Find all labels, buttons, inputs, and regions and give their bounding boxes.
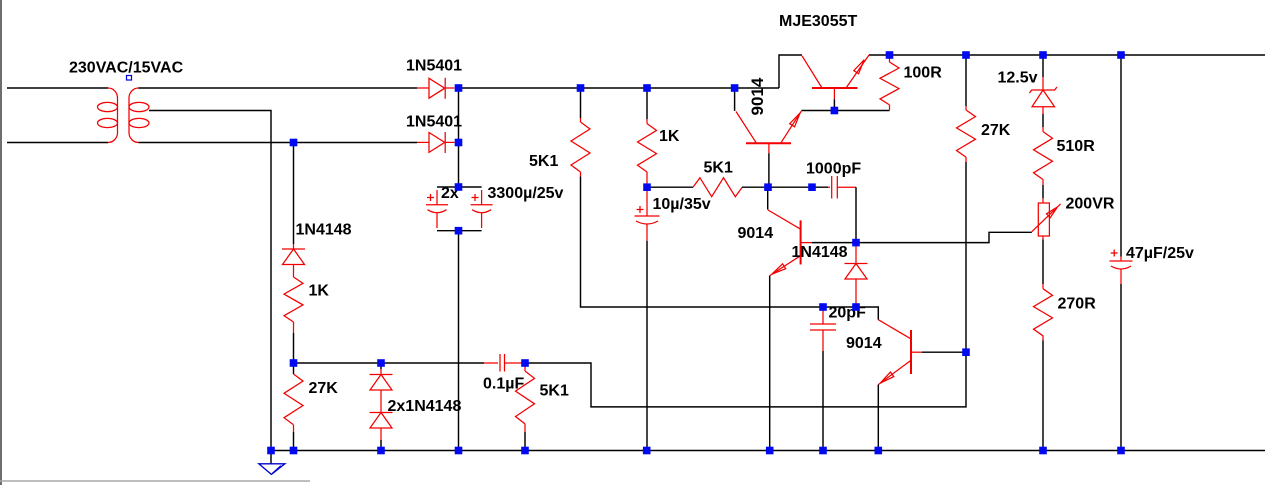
label 5K1 horizontal xyxy=(704,160,733,177)
label Q4 9014 xyxy=(846,335,882,352)
label 1K middle xyxy=(659,128,680,145)
wire 5K1 to error amp base run xyxy=(581,177,824,308)
transistor Q4 9014 xyxy=(878,320,921,385)
label MJE3055T xyxy=(779,13,857,30)
svg-text:1N5401: 1N5401 xyxy=(406,114,462,131)
label 2x1N4148 xyxy=(388,398,462,415)
window border left edge xyxy=(0,0,2,485)
resistor 27K right xyxy=(957,55,976,162)
resistor 270R xyxy=(1034,284,1053,341)
wire Q4 collector xyxy=(922,351,966,353)
svg-text:100R: 100R xyxy=(904,65,943,82)
svg-text:47µF/25v: 47µF/25v xyxy=(1126,245,1194,262)
svg-text:9014: 9014 xyxy=(846,335,882,352)
wire 1K node to 5K1h xyxy=(647,186,693,188)
svg-text:27K: 27K xyxy=(309,380,339,397)
wire 5K1h to base node xyxy=(742,186,768,188)
label 2x xyxy=(441,185,459,202)
wire secondary center tap xyxy=(149,111,271,451)
svg-text:270R: 270R xyxy=(1058,296,1097,313)
label 27K right xyxy=(981,122,1011,139)
label D2 1N5401 xyxy=(406,114,462,131)
resistor 5K1 first xyxy=(571,88,590,177)
transistor Q1 MJE3055T xyxy=(802,55,869,99)
label 230VAC/15VAC xyxy=(69,60,184,77)
svg-text:9014: 9014 xyxy=(738,225,774,242)
window border bottom-left edge xyxy=(0,480,310,482)
svg-text:5K1: 5K1 xyxy=(540,383,569,400)
wire output top rail xyxy=(869,54,1265,56)
diode D6 1N4148 xyxy=(845,246,868,304)
wire 1000pF down to diode node xyxy=(855,187,857,242)
svg-text:3300µ/25v: 3300µ/25v xyxy=(488,185,564,202)
transistor Q3 9014 xyxy=(768,210,812,276)
svg-text:1K: 1K xyxy=(659,128,680,145)
wire 20pF node xyxy=(823,306,856,308)
wire bias node horizontal xyxy=(294,362,485,364)
label 20pF xyxy=(829,305,867,322)
label D6 1N4148 xyxy=(792,244,848,261)
wire zener to 510R xyxy=(1042,114,1044,127)
svg-text:MJE3055T: MJE3055T xyxy=(779,13,857,30)
resistor 27K left xyxy=(284,363,303,451)
resistor 510R xyxy=(1034,127,1053,185)
label 47uF/25v xyxy=(1126,245,1194,262)
label D1 1N5401 xyxy=(406,58,462,75)
label 510R xyxy=(1057,138,1096,155)
diode D4 1N4148 (upper of 2x) xyxy=(370,369,393,390)
wire Q4 emitter down xyxy=(877,385,879,451)
capacitor 20pF xyxy=(810,307,836,351)
svg-text:5K1: 5K1 xyxy=(529,153,558,170)
svg-text:1000pF: 1000pF xyxy=(806,161,861,178)
wire pot to 270R xyxy=(1042,239,1044,284)
resistor 5K1 horizontal xyxy=(693,178,742,197)
svg-text:1N4148: 1N4148 xyxy=(792,244,848,261)
label 3300u/25v xyxy=(488,185,564,202)
wire Q1 base lead xyxy=(833,99,835,110)
ground symbol xyxy=(259,464,285,475)
wire 20pF to ground rail xyxy=(822,351,824,451)
resistor 100R xyxy=(880,55,899,111)
resistor 1K middle xyxy=(638,88,657,187)
resistor 5K1 bottom xyxy=(516,363,535,451)
label D3 1N4148 xyxy=(296,222,352,239)
wire Q3 collector stub xyxy=(767,187,769,210)
wire zener top lead xyxy=(1042,55,1044,77)
wire secondary bottom lead xyxy=(139,142,418,144)
svg-text:2x1N4148: 2x1N4148 xyxy=(388,398,462,415)
wire primary bottom lead xyxy=(7,142,108,144)
wire Q1 base node horizontal xyxy=(802,110,890,112)
selection handle square xyxy=(127,76,132,81)
wire feedback run xyxy=(525,352,966,407)
capacitor 1000pF xyxy=(828,176,856,199)
wire Q2 base lead xyxy=(768,153,770,187)
svg-text:1N5401: 1N5401 xyxy=(406,58,462,75)
diode D5 1N4148 (lower of 2x) xyxy=(370,390,393,440)
wire 2x1N4148 bottom lead xyxy=(380,440,382,451)
junction dots (all wire junctions) xyxy=(267,51,1125,454)
wire ground stub xyxy=(270,451,272,464)
transformer T1 230VAC/15VAC xyxy=(98,88,150,143)
label 27K left xyxy=(309,380,339,397)
label 10u/35v xyxy=(653,196,711,213)
svg-text:27K: 27K xyxy=(981,122,1011,139)
capacitor 47uF/25v xyxy=(1110,250,1133,285)
resistor 1K left xyxy=(284,277,303,333)
label 5K1 bottom xyxy=(540,383,569,400)
wire Q3 base to node xyxy=(812,242,856,244)
capacitor bank 2x 3300u/25v xyxy=(426,187,493,231)
zener diode 12.5v xyxy=(1030,77,1058,114)
diode D2 1N5401 xyxy=(417,132,455,153)
wire Q4 base wire xyxy=(856,307,878,320)
wire Q3 emitter down xyxy=(769,276,771,451)
wire primary top lead xyxy=(7,87,108,89)
svg-text:10µ/35v: 10µ/35v xyxy=(653,196,711,213)
wire base node to 1000pF xyxy=(768,186,828,188)
label Q3 9014 xyxy=(738,225,774,242)
svg-text:9014: 9014 xyxy=(748,77,767,115)
wire 27K down to Q4 collector xyxy=(965,162,967,352)
svg-text:200VR: 200VR xyxy=(1066,196,1115,213)
capacitor 0.1uF xyxy=(484,354,522,372)
label 270R xyxy=(1058,296,1097,313)
svg-text:510R: 510R xyxy=(1057,138,1096,155)
svg-text:12.5v: 12.5v xyxy=(998,70,1038,87)
wire 2x1N4148 top lead xyxy=(380,363,382,369)
wire 1K to node xyxy=(293,333,295,363)
label 0.1uF xyxy=(483,376,524,393)
capacitor C3 10u/35v xyxy=(635,191,660,241)
svg-text:230VAC/15VAC: 230VAC/15VAC xyxy=(69,60,184,77)
svg-text:1N4148: 1N4148 xyxy=(296,222,352,239)
wire 270R to ground rail xyxy=(1042,341,1044,451)
label 1000pF xyxy=(806,161,861,178)
wire reference node xyxy=(856,232,1032,242)
label 5K1 first xyxy=(529,153,558,170)
wire output cap top lead xyxy=(1120,55,1122,257)
potentiometer 200VR xyxy=(1032,198,1061,239)
wire rectifier output vertical xyxy=(458,88,460,187)
label 12.5v xyxy=(998,70,1038,87)
label 200VR xyxy=(1066,196,1115,213)
wire secondary top lead xyxy=(139,87,418,89)
wire Q2 collector stub xyxy=(734,88,736,111)
label 1K left xyxy=(309,283,330,300)
label 100R xyxy=(904,65,943,82)
wire ground rail xyxy=(271,450,1265,452)
wire to Q1 collector xyxy=(779,55,802,88)
label Q2 9014 vertical xyxy=(748,77,767,115)
wire output cap bottom lead xyxy=(1120,284,1122,451)
svg-text:1K: 1K xyxy=(309,283,330,300)
wire 510R to pot xyxy=(1042,185,1044,198)
wire filter caps to ground rail xyxy=(458,231,460,451)
svg-text:5K1: 5K1 xyxy=(704,160,733,177)
diode D3 1N4148 xyxy=(282,244,305,277)
transistor Q2 9014 xyxy=(736,111,802,153)
wire B+ rail xyxy=(459,87,780,89)
wire 10u to ground rail xyxy=(646,241,648,451)
diode D1 1N5401 xyxy=(417,78,455,99)
wire tap junction down xyxy=(293,143,295,245)
